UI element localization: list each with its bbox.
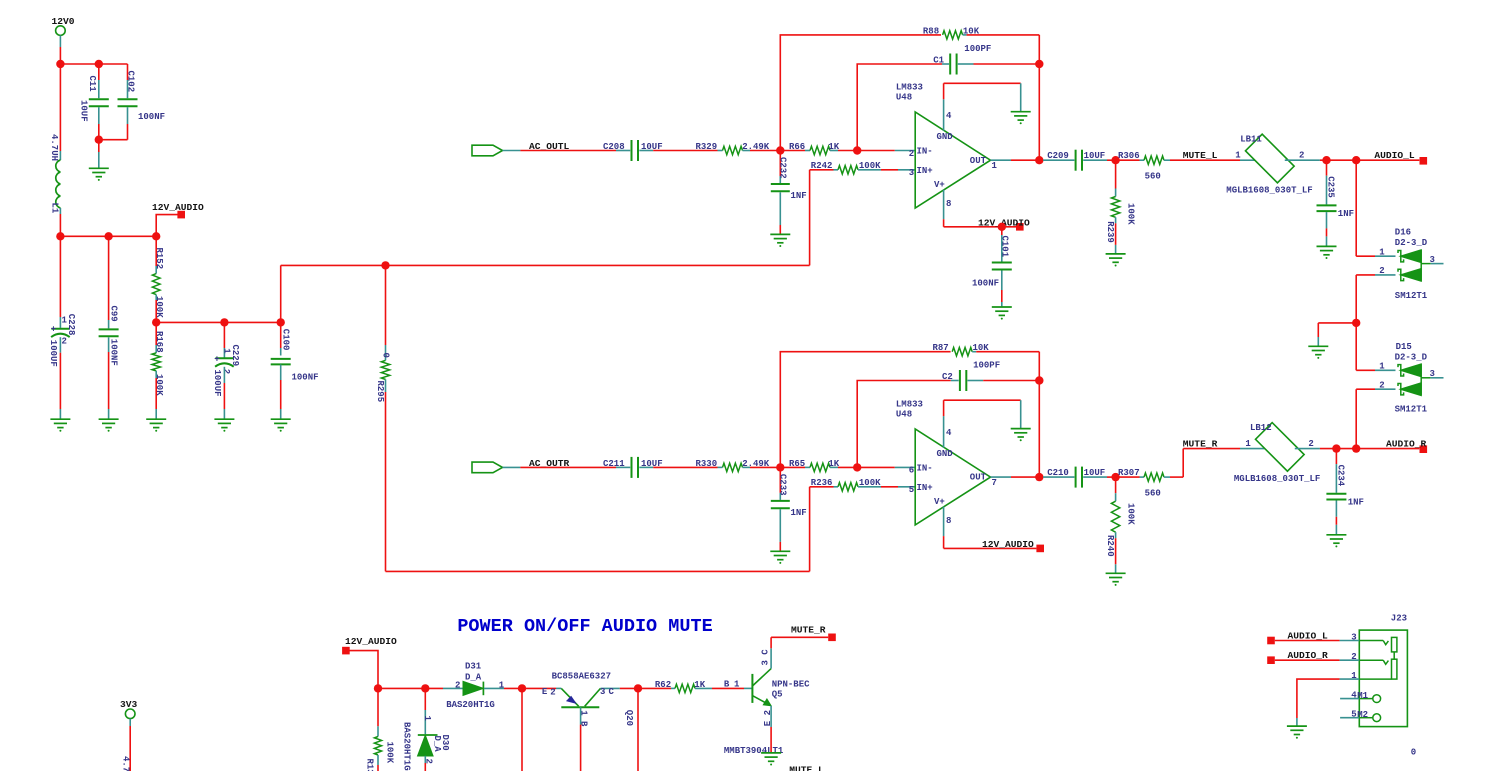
svg-text:1NF: 1NF	[791, 191, 807, 201]
resistor R239 100K to ground	[1105, 160, 1135, 253]
svg-text:3 C: 3 C	[760, 649, 770, 666]
svg-text:0: 0	[380, 353, 390, 358]
net 12V_AUDIO flag	[152, 202, 204, 236]
svg-text:0: 0	[1411, 747, 1416, 757]
op-amp U48 LM833	[896, 83, 998, 220]
svg-text:10UF: 10UF	[1084, 468, 1106, 478]
svg-text:C100: C100	[280, 329, 290, 351]
svg-text:10UF: 10UF	[78, 100, 88, 122]
junction 12V0/L1	[56, 60, 64, 68]
capacitor C101 100NF	[972, 227, 1012, 307]
resistor R295 0 ohm	[375, 265, 390, 571]
junction clamp tap	[1352, 444, 1360, 452]
svg-text:1NF: 1NF	[1338, 209, 1354, 219]
svg-text:R87: R87	[933, 343, 949, 353]
svg-text:R295: R295	[375, 381, 385, 403]
svg-text:1: 1	[1235, 151, 1241, 161]
svg-text:2: 2	[62, 337, 67, 347]
ground below C228	[50, 419, 70, 432]
resistor R65 1K	[780, 459, 857, 472]
svg-text:C229: C229	[230, 345, 240, 367]
svg-text:L1: L1	[49, 203, 59, 214]
wire divider node	[156, 321, 281, 323]
junction R330/R65/C233/R87	[776, 463, 784, 471]
resistor R242 100K to IN+	[810, 161, 916, 174]
svg-text:C99: C99	[108, 306, 118, 322]
wire mid node to D15	[1356, 323, 1395, 370]
svg-text:AUDIO_R: AUDIO_R	[1386, 438, 1427, 449]
svg-text:BAS20HT1G: BAS20HT1G	[446, 700, 495, 710]
capacitor C234 1NF	[1326, 449, 1364, 535]
net label MUTE_L (cropped)	[789, 765, 824, 771]
svg-text:5: 5	[909, 485, 914, 495]
svg-text:1: 1	[1379, 248, 1385, 258]
junction L1/C228	[56, 232, 64, 240]
svg-text:C232: C232	[778, 157, 788, 179]
svg-text:3: 3	[909, 168, 914, 178]
junction C101 tap	[998, 223, 1006, 231]
junction C210/R240/R307	[1111, 473, 1119, 481]
svg-text:2.49K: 2.49K	[742, 459, 770, 469]
svg-text:100K: 100K	[385, 742, 395, 764]
connector J23 body	[1359, 613, 1407, 726]
svg-text:AUDIO_L: AUDIO_L	[1374, 150, 1415, 161]
svg-text:100PF: 100PF	[973, 361, 1000, 371]
wire bus to Q20	[522, 687, 561, 689]
svg-text:3: 3	[1430, 255, 1435, 265]
capacitor C208 10UF	[603, 140, 663, 161]
svg-text:U48: U48	[896, 93, 912, 103]
wire feedback to output	[1038, 381, 1040, 478]
ground below Q5 emitter	[761, 753, 781, 766]
svg-text:E: E	[542, 687, 548, 697]
svg-text:+: +	[214, 354, 219, 364]
ground at J23 pin 1	[1287, 726, 1307, 739]
junction C11 top	[95, 60, 103, 68]
ground below R240	[1106, 573, 1126, 586]
svg-text:100K: 100K	[859, 161, 881, 171]
svg-text:IN+: IN+	[917, 483, 933, 493]
svg-text:1: 1	[1351, 671, 1357, 681]
resistor R87 10K feedback	[780, 343, 1039, 467]
svg-text:R307: R307	[1118, 468, 1140, 478]
junction cap bottoms	[95, 136, 103, 144]
svg-text:100UF: 100UF	[212, 370, 222, 397]
svg-text:R137: R137	[365, 759, 375, 771]
svg-text:100NF: 100NF	[972, 279, 999, 289]
svg-text:POWER ON/OFF AUDIO MUTE: POWER ON/OFF AUDIO MUTE	[457, 616, 712, 637]
svg-text:C210: C210	[1047, 468, 1069, 478]
transistor Q20 BC858AE6327 PNP	[542, 671, 638, 771]
wire bias rail upper	[281, 265, 810, 322]
svg-text:100UF: 100UF	[48, 340, 58, 367]
svg-text:12V_AUDIO: 12V_AUDIO	[152, 202, 204, 213]
svg-text:12V_AUDIO: 12V_AUDIO	[345, 636, 397, 647]
capacitor C209 10UF	[1039, 150, 1115, 171]
svg-text:R242: R242	[811, 161, 833, 171]
svg-text:R168: R168	[154, 331, 164, 353]
svg-text:1NF: 1NF	[791, 508, 807, 518]
svg-text:D_A: D_A	[465, 672, 482, 682]
svg-text:C211: C211	[603, 459, 625, 469]
svg-text:C209: C209	[1047, 151, 1069, 161]
capacitor C229 100UF polarized	[212, 322, 240, 418]
svg-text:C101: C101	[1000, 236, 1010, 258]
svg-text:D_A: D_A	[432, 736, 442, 753]
resistor R168 100K	[152, 322, 164, 418]
diode D30 BAS20HT1G	[401, 688, 450, 771]
svg-text:BC858AE6327: BC858AE6327	[552, 671, 611, 681]
wire R307 up to MUTE_R row	[1170, 449, 1240, 478]
capacitor C232 1NF	[771, 151, 807, 235]
net flag AUDIO_R	[1386, 438, 1427, 453]
svg-text:D31: D31	[465, 662, 482, 672]
svg-text:3V3: 3V3	[120, 699, 138, 710]
resistor R62 1K	[638, 679, 752, 692]
resistor R306 560	[1116, 151, 1170, 181]
svg-text:R62: R62	[655, 680, 671, 690]
svg-text:1: 1	[992, 161, 998, 171]
svg-text:1K: 1K	[828, 459, 839, 469]
svg-text:2: 2	[455, 681, 460, 691]
svg-text:R66: R66	[789, 142, 805, 152]
svg-text:LB12: LB12	[1250, 423, 1272, 433]
svg-text:D15: D15	[1396, 342, 1412, 352]
wire LB11 to AUDIO_L	[1320, 159, 1419, 161]
svg-text:6: 6	[909, 466, 914, 476]
power port 3V3	[120, 699, 138, 771]
svg-text:OUT: OUT	[970, 156, 987, 166]
ground below R168	[146, 419, 166, 432]
svg-text:MMBT3904LT1: MMBT3904LT1	[724, 746, 784, 756]
svg-text:10K: 10K	[973, 343, 990, 353]
resistor R236 100K to IN+	[810, 478, 916, 491]
svg-text:R240: R240	[1105, 535, 1115, 557]
svg-text:D16: D16	[1395, 228, 1411, 238]
svg-text:5: 5	[1351, 710, 1356, 720]
svg-text:B: B	[724, 679, 730, 689]
junction Q20 collector node	[634, 684, 642, 692]
svg-text:560: 560	[1145, 171, 1161, 181]
svg-text:MGLB1608_030T_LF: MGLB1608_030T_LF	[1234, 474, 1320, 484]
ground below C101	[992, 307, 1012, 320]
svg-text:2: 2	[423, 759, 433, 764]
svg-text:C11: C11	[87, 76, 97, 93]
svg-text:+: +	[51, 325, 56, 335]
wire R306 to LB11	[1170, 159, 1240, 161]
svg-text:J23: J23	[1391, 613, 1407, 623]
ground at op-amp pin 4	[1011, 112, 1031, 125]
svg-text:2: 2	[1351, 652, 1356, 662]
resistor R240 100K to ground	[1105, 477, 1135, 573]
wire cap bottoms	[99, 139, 128, 141]
svg-text:1K: 1K	[694, 680, 705, 690]
junction C99 tap	[104, 232, 112, 240]
ground below C99	[99, 419, 119, 432]
svg-text:2: 2	[1308, 439, 1313, 449]
svg-text:12V_AUDIO: 12V_AUDIO	[982, 539, 1034, 550]
wire D15 pin2 to AUDIO_R	[1356, 389, 1395, 448]
power port 12V0	[52, 16, 75, 64]
capacitor C2 100PF	[857, 361, 1039, 468]
resistor R66 1K	[780, 142, 857, 155]
svg-text:4.7K: 4.7K	[120, 756, 130, 771]
svg-text:2: 2	[550, 687, 555, 697]
svg-text:8: 8	[946, 199, 951, 209]
junction clamp tap	[1352, 156, 1360, 164]
wire mid node to ground	[1318, 323, 1356, 346]
svg-text:V+: V+	[934, 497, 945, 507]
svg-text:MUTE_L: MUTE_L	[1183, 150, 1218, 161]
svg-text:MUTE_R: MUTE_R	[791, 625, 826, 636]
capacitor C228 100UF polarized	[48, 236, 76, 418]
diode D16 SM12T1 dual	[1379, 228, 1443, 301]
svg-text:R239: R239	[1105, 221, 1115, 243]
net label MUTE_L	[1183, 150, 1218, 161]
svg-text:100K: 100K	[1126, 503, 1136, 525]
junction clamp mid node	[1352, 319, 1360, 327]
ground below C233	[770, 551, 790, 564]
ground at op-amp pin 4	[1011, 429, 1031, 442]
wire D16 pin2	[1356, 275, 1395, 323]
svg-text:MUTE_R: MUTE_R	[1183, 438, 1218, 449]
junction C1 output side	[1035, 60, 1043, 68]
junction bus mid	[518, 684, 526, 692]
wire LB12 to AUDIO_R	[1320, 448, 1419, 450]
svg-text:OUT: OUT	[970, 473, 987, 483]
svg-text:100NF: 100NF	[138, 112, 165, 122]
ground below R239	[1106, 254, 1126, 267]
wire down from Q20 collector node	[637, 688, 639, 771]
svg-text:10UF: 10UF	[1084, 151, 1106, 161]
svg-text:10K: 10K	[963, 26, 980, 36]
svg-text:M2: M2	[1357, 710, 1368, 720]
junction C2 output side	[1035, 376, 1043, 384]
svg-text:2: 2	[909, 149, 914, 159]
svg-text:R152: R152	[154, 248, 164, 270]
net label MUTE_R	[1183, 438, 1218, 449]
ground below C234	[1326, 535, 1346, 548]
svg-text:1NF: 1NF	[1348, 497, 1364, 507]
svg-text:8: 8	[946, 516, 951, 526]
svg-text:100NF: 100NF	[109, 339, 119, 366]
capacitor C102 100NF	[118, 64, 166, 140]
resistor R307 560	[1116, 468, 1170, 498]
wire J23 pin 1 to ground	[1297, 671, 1359, 726]
capacitor C210 10UF	[1039, 467, 1115, 488]
svg-text:100K: 100K	[154, 374, 164, 396]
svg-text:R65: R65	[789, 459, 805, 469]
junction R152 top	[152, 232, 160, 240]
wire 12V0 node	[60, 63, 127, 65]
junction C235 tap	[1322, 156, 1330, 164]
ground below C232	[770, 234, 790, 247]
net 12V_AUDIO feed	[342, 636, 397, 688]
svg-text:R329: R329	[696, 142, 718, 152]
J23 jack contacts	[1359, 637, 1397, 679]
svg-text:2.49K: 2.49K	[742, 142, 770, 152]
svg-text:Q20: Q20	[624, 710, 634, 726]
ground below C235	[1317, 246, 1337, 259]
junction R329/R66/C232/R88	[776, 146, 784, 154]
svg-text:D2-3_D: D2-3_D	[1395, 238, 1428, 248]
junction C100 tap	[277, 318, 285, 326]
junction R66/C1 IN- node	[853, 146, 861, 154]
svg-text:1: 1	[734, 679, 740, 689]
resistor R152 100K	[152, 236, 164, 322]
wire AUDIO_L to D16	[1356, 160, 1395, 256]
capacitor C235 1NF	[1317, 160, 1355, 246]
capacitor C99 100NF	[99, 236, 119, 418]
junction R295 top	[381, 261, 389, 269]
wire Q5 collector to MUTE_R	[771, 625, 836, 642]
svg-text:R88: R88	[923, 26, 939, 36]
wire down from bus mid	[521, 688, 523, 771]
svg-text:1: 1	[1379, 362, 1385, 372]
op-amp pin 4 wire to ground	[944, 400, 1021, 428]
svg-text:M1: M1	[1357, 691, 1368, 701]
wire op-amp output	[991, 159, 1040, 161]
resistor R329 2.49K	[653, 142, 780, 155]
svg-text:GND: GND	[937, 132, 954, 142]
J23 pin 4 M1	[1340, 691, 1381, 703]
wire to IN- pin	[857, 150, 915, 152]
svg-text:3: 3	[1351, 632, 1356, 642]
junction C209/R239/R306	[1111, 156, 1119, 164]
capacitor C1 100PF	[857, 44, 1039, 151]
svg-text:R330: R330	[696, 459, 718, 469]
net flag AUDIO_L to J23 pin 3	[1267, 630, 1359, 644]
svg-text:1: 1	[422, 716, 432, 722]
svg-text:MGLB1608_030T_LF: MGLB1608_030T_LF	[1226, 186, 1312, 196]
junction C234 tap	[1332, 444, 1340, 452]
wire bias to R242	[809, 170, 811, 266]
svg-text:LB11: LB11	[1240, 135, 1262, 145]
svg-text:C208: C208	[603, 142, 625, 152]
svg-text:4.7UH: 4.7UH	[49, 134, 59, 161]
svg-text:LM833: LM833	[896, 83, 923, 93]
svg-text:C234: C234	[1336, 465, 1346, 487]
junction output node	[1035, 473, 1043, 481]
svg-text:C: C	[609, 687, 615, 697]
ground below C11	[89, 140, 109, 181]
port AC_OUTL	[472, 141, 616, 156]
wire power bus	[60, 235, 156, 237]
svg-text:1: 1	[499, 681, 505, 691]
svg-text:100K: 100K	[859, 478, 881, 488]
ferrite bead LB11 MGLB1608_030T_LF	[1226, 134, 1320, 195]
wire mute bus	[378, 687, 443, 689]
wire bias rail lower	[386, 487, 810, 572]
resistor R88 10K feedback	[780, 26, 1039, 150]
svg-text:100K: 100K	[154, 296, 164, 318]
net flag AUDIO_L	[1374, 150, 1427, 165]
ground clamp mid	[1308, 346, 1328, 359]
svg-text:C1: C1	[933, 55, 944, 65]
svg-text:BAS20HT1G: BAS20HT1G	[401, 722, 411, 771]
wire op-amp output	[991, 476, 1040, 478]
svg-text:1: 1	[1245, 439, 1251, 449]
svg-text:E 2: E 2	[763, 710, 773, 726]
svg-text:MUTE_L: MUTE_L	[789, 765, 824, 771]
diode D15 SM12T1 dual	[1379, 342, 1443, 415]
svg-text:R236: R236	[811, 478, 833, 488]
resistor R330 2.49K	[653, 459, 780, 472]
capacitor C211 10UF	[603, 457, 663, 478]
svg-text:LM833: LM833	[896, 399, 923, 409]
transistor Q5 MMBT3904LT1 NPN	[724, 637, 810, 756]
junction R152/R168	[152, 318, 160, 326]
net flag AUDIO_R to J23 pin 2	[1267, 650, 1359, 664]
diode D31 BAS20HT1G	[443, 662, 522, 711]
capacitor C100 100NF	[271, 322, 319, 418]
op-amp pin 8 wire to 12V_AUDIO	[944, 218, 1030, 231]
svg-text:U48: U48	[896, 409, 912, 419]
capacitor C233 1NF	[771, 467, 807, 551]
svg-text:7: 7	[992, 478, 997, 488]
ground below C100	[271, 419, 291, 432]
wire to IN- pin	[857, 466, 915, 468]
junction R65/C2 IN- node	[853, 463, 861, 471]
svg-text:1K: 1K	[828, 142, 839, 152]
J23 pin 5 M2	[1340, 710, 1381, 722]
svg-text:SM12T1: SM12T1	[1395, 291, 1428, 301]
capacitor C11 10UF	[78, 64, 108, 140]
op-amp pin 4 wire to ground	[944, 83, 1021, 111]
port AC_OUTR	[472, 458, 616, 473]
svg-text:2: 2	[1299, 151, 1304, 161]
svg-text:R306: R306	[1118, 151, 1140, 161]
svg-text:D2-3_D: D2-3_D	[1395, 353, 1428, 363]
junction output node	[1035, 156, 1043, 164]
wire feedback to output	[1038, 64, 1040, 160]
junction C229 tap	[220, 318, 228, 326]
ground below C229	[214, 419, 234, 432]
op-amp U48 LM833	[896, 399, 997, 536]
op-amp pin 8 wire to 12V_AUDIO	[944, 536, 1044, 552]
svg-text:100PF: 100PF	[964, 44, 991, 54]
svg-text:4: 4	[946, 428, 952, 438]
title POWER ON/OFF AUDIO MUTE	[457, 616, 712, 637]
svg-text:4: 4	[946, 111, 952, 121]
svg-text:IN-: IN-	[917, 147, 933, 157]
resistor R137 100K	[365, 688, 395, 771]
svg-text:SM12T1: SM12T1	[1395, 404, 1428, 414]
ferrite bead LB12 MGLB1608_030T_LF	[1234, 423, 1320, 484]
text 0	[1411, 747, 1416, 757]
svg-text:3: 3	[1430, 369, 1435, 379]
svg-text:V+: V+	[934, 180, 945, 190]
svg-text:100NF: 100NF	[292, 373, 319, 383]
svg-text:IN-: IN-	[917, 464, 933, 474]
svg-text:Q5: Q5	[772, 690, 783, 700]
svg-text:560: 560	[1145, 488, 1161, 498]
svg-text:100K: 100K	[1126, 203, 1136, 225]
svg-text:GND: GND	[937, 449, 954, 459]
junction 12V_AUDIO/R137	[374, 684, 382, 692]
svg-text:C235: C235	[1326, 176, 1336, 198]
svg-text:3: 3	[600, 687, 605, 697]
svg-text:C233: C233	[778, 474, 788, 496]
svg-text:C102: C102	[126, 71, 136, 93]
svg-text:C2: C2	[942, 372, 953, 382]
svg-text:NPN-BEC: NPN-BEC	[772, 679, 810, 689]
svg-text:12V0: 12V0	[52, 16, 75, 27]
junction D30 top	[421, 684, 429, 692]
inductor L1 4.7UH	[49, 64, 61, 236]
svg-text:1 B: 1 B	[579, 710, 589, 727]
svg-text:IN+: IN+	[917, 166, 933, 176]
